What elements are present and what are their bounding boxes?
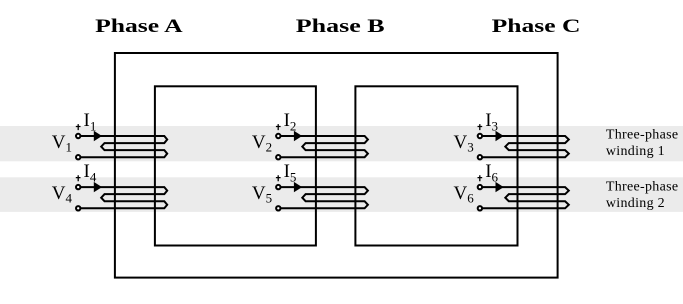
terminal - of V2 [276,155,280,159]
winding 2 highlight band [0,177,683,212]
svg-text:Phase A: Phase A [95,16,183,37]
terminal + of V6 [478,185,482,189]
polarity plus sign V1 [76,124,81,130]
current arrow I4 [94,182,102,192]
svg-text:winding 2: winding 2 [606,196,665,211]
winding L1 phase A coil [80,136,167,157]
terminal + of V3 [478,134,482,138]
svg-text:Three-phase: Three-phase [606,128,678,143]
svg-text:Phase C: Phase C [492,16,581,37]
current arrow I3 [496,131,504,141]
terminal - of V6 [478,206,482,210]
winding L3 phase C coil [482,136,569,157]
svg-text:Three-phase: Three-phase [606,179,678,194]
terminal + of V5 [276,185,280,189]
terminal - of V1 [76,155,80,159]
terminal - of V3 [478,155,482,159]
current arrow I2 [294,131,302,141]
terminal + of V4 [76,185,80,189]
polarity plus sign V3 [478,124,483,130]
winding L2 phase B coil [281,136,368,157]
transformer outer core [115,53,558,278]
current arrow I5 [294,182,302,192]
current arrow I6 [496,182,504,192]
core window 2 [355,86,517,245]
terminal + of V1 [76,134,80,138]
polarity plus sign V2 [276,124,281,130]
terminal + of V2 [276,134,280,138]
core window 1 [155,86,316,245]
polarity plus sign V6 [478,175,483,181]
terminal - of V5 [276,206,280,210]
svg-text:Phase B: Phase B [296,16,385,37]
winding L4 phase A coil [80,187,167,208]
polarity plus sign V4 [76,175,81,181]
terminal - of V4 [76,206,80,210]
winding 1 highlight band [0,126,683,161]
svg-text:winding 1: winding 1 [606,144,665,159]
current arrow I1 [94,131,102,141]
polarity plus sign V5 [276,175,281,181]
winding L6 phase C coil [482,187,569,208]
winding L5 phase B coil [281,187,368,208]
